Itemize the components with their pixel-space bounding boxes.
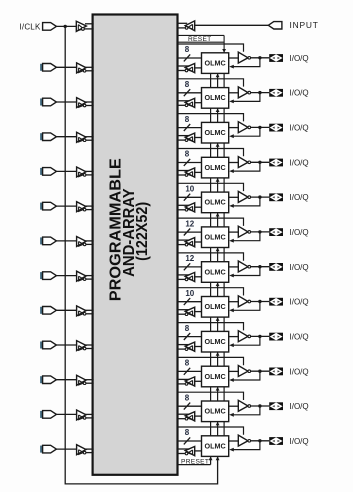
svg-text:I/O/Q: I/O/Q (290, 298, 309, 307)
svg-text:I/O/Q: I/O/Q (290, 367, 309, 376)
svg-text:12: 12 (185, 219, 194, 228)
svg-text:I/O/Q: I/O/Q (290, 193, 309, 202)
svg-text:OLMC: OLMC (205, 233, 226, 242)
svg-text:I/O/Q: I/O/Q (290, 333, 309, 342)
svg-text:(122X52): (122X52) (134, 202, 151, 261)
svg-text:I/O/Q: I/O/Q (290, 263, 309, 272)
svg-text:OLMC: OLMC (205, 267, 226, 276)
svg-text:I/O/Q: I/O/Q (290, 89, 309, 98)
svg-text:12: 12 (185, 254, 194, 263)
svg-text:I/O/Q: I/O/Q (290, 158, 309, 167)
svg-text:INPUT: INPUT (290, 20, 319, 30)
svg-text:I/O/Q: I/O/Q (290, 228, 309, 237)
svg-text:8: 8 (185, 45, 190, 54)
svg-text:8: 8 (185, 324, 190, 333)
svg-text:8: 8 (185, 359, 190, 368)
svg-text:OLMC: OLMC (205, 163, 226, 172)
svg-text:10: 10 (185, 185, 194, 194)
svg-text:OLMC: OLMC (205, 93, 226, 102)
svg-text:OLMC: OLMC (205, 128, 226, 137)
svg-text:OLMC: OLMC (205, 58, 226, 67)
svg-text:I/O/Q: I/O/Q (290, 124, 309, 133)
svg-text:OLMC: OLMC (205, 302, 226, 311)
svg-text:I/O/Q: I/O/Q (290, 402, 309, 411)
svg-text:OLMC: OLMC (205, 407, 226, 416)
svg-text:I/O/Q: I/O/Q (290, 54, 309, 63)
svg-text:8: 8 (185, 80, 190, 89)
svg-text:I/CLK: I/CLK (19, 22, 40, 31)
svg-text:8: 8 (185, 150, 190, 159)
svg-text:8: 8 (185, 428, 190, 437)
svg-text:OLMC: OLMC (205, 372, 226, 381)
svg-text:8: 8 (185, 115, 190, 124)
svg-text:OLMC: OLMC (205, 198, 226, 207)
svg-text:8: 8 (185, 393, 190, 402)
svg-text:OLMC: OLMC (205, 441, 226, 450)
svg-text:I/O/Q: I/O/Q (290, 437, 309, 446)
svg-text:10: 10 (185, 289, 194, 298)
svg-text:OLMC: OLMC (205, 337, 226, 346)
